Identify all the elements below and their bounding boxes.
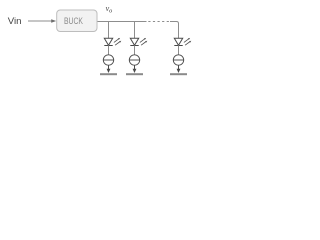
- ground (branch 2): [126, 73, 143, 75]
- current source In (circle with bar): [173, 55, 183, 65]
- svg-text:Vin: Vin: [8, 16, 22, 27]
- ground (branch n): [170, 73, 187, 75]
- ground (branch 1): [100, 73, 117, 75]
- wire Vin input with arrowhead into buck converter: [28, 19, 56, 23]
- LED D2 light-emission arrows: [140, 38, 147, 45]
- wire V_o rail dashed continuation (repeated branches implied): [148, 21, 169, 23]
- LED Dn (anode top, cathode bottom): [174, 38, 182, 45]
- current source I1 (circle with bar): [103, 55, 113, 65]
- wire LED Dn cathode to current source In: [178, 46, 180, 55]
- wire current source In to ground, with current-direction arrowhead: [177, 65, 181, 73]
- wire LED D2 cathode to current source I2: [134, 46, 136, 55]
- wire current source I2 to ground, with current-direction arrowhead: [133, 65, 137, 73]
- wire V_o rail to LED D1 anode: [108, 21, 110, 38]
- current source I2 (circle with bar): [129, 55, 139, 65]
- svg-text:BUCK: BUCK: [64, 16, 83, 26]
- wire current source I1 to ground, with current-direction arrowhead: [107, 65, 111, 73]
- LED Dn light-emission arrows: [184, 38, 191, 45]
- LED D1 (anode top, cathode bottom): [104, 38, 112, 45]
- wire V_o rail to LED D2 anode: [134, 21, 136, 38]
- wire V_o output rail (solid segment): [98, 21, 147, 23]
- wire LED D1 cathode to current source I1: [108, 46, 110, 55]
- LED D1 light-emission arrows: [114, 38, 121, 45]
- wire V_o rail corner down to LED Dn branch: [170, 22, 179, 39]
- buck converter U1 (BUCK block): [57, 10, 97, 32]
- LED D2 (anode top, cathode bottom): [130, 38, 138, 45]
